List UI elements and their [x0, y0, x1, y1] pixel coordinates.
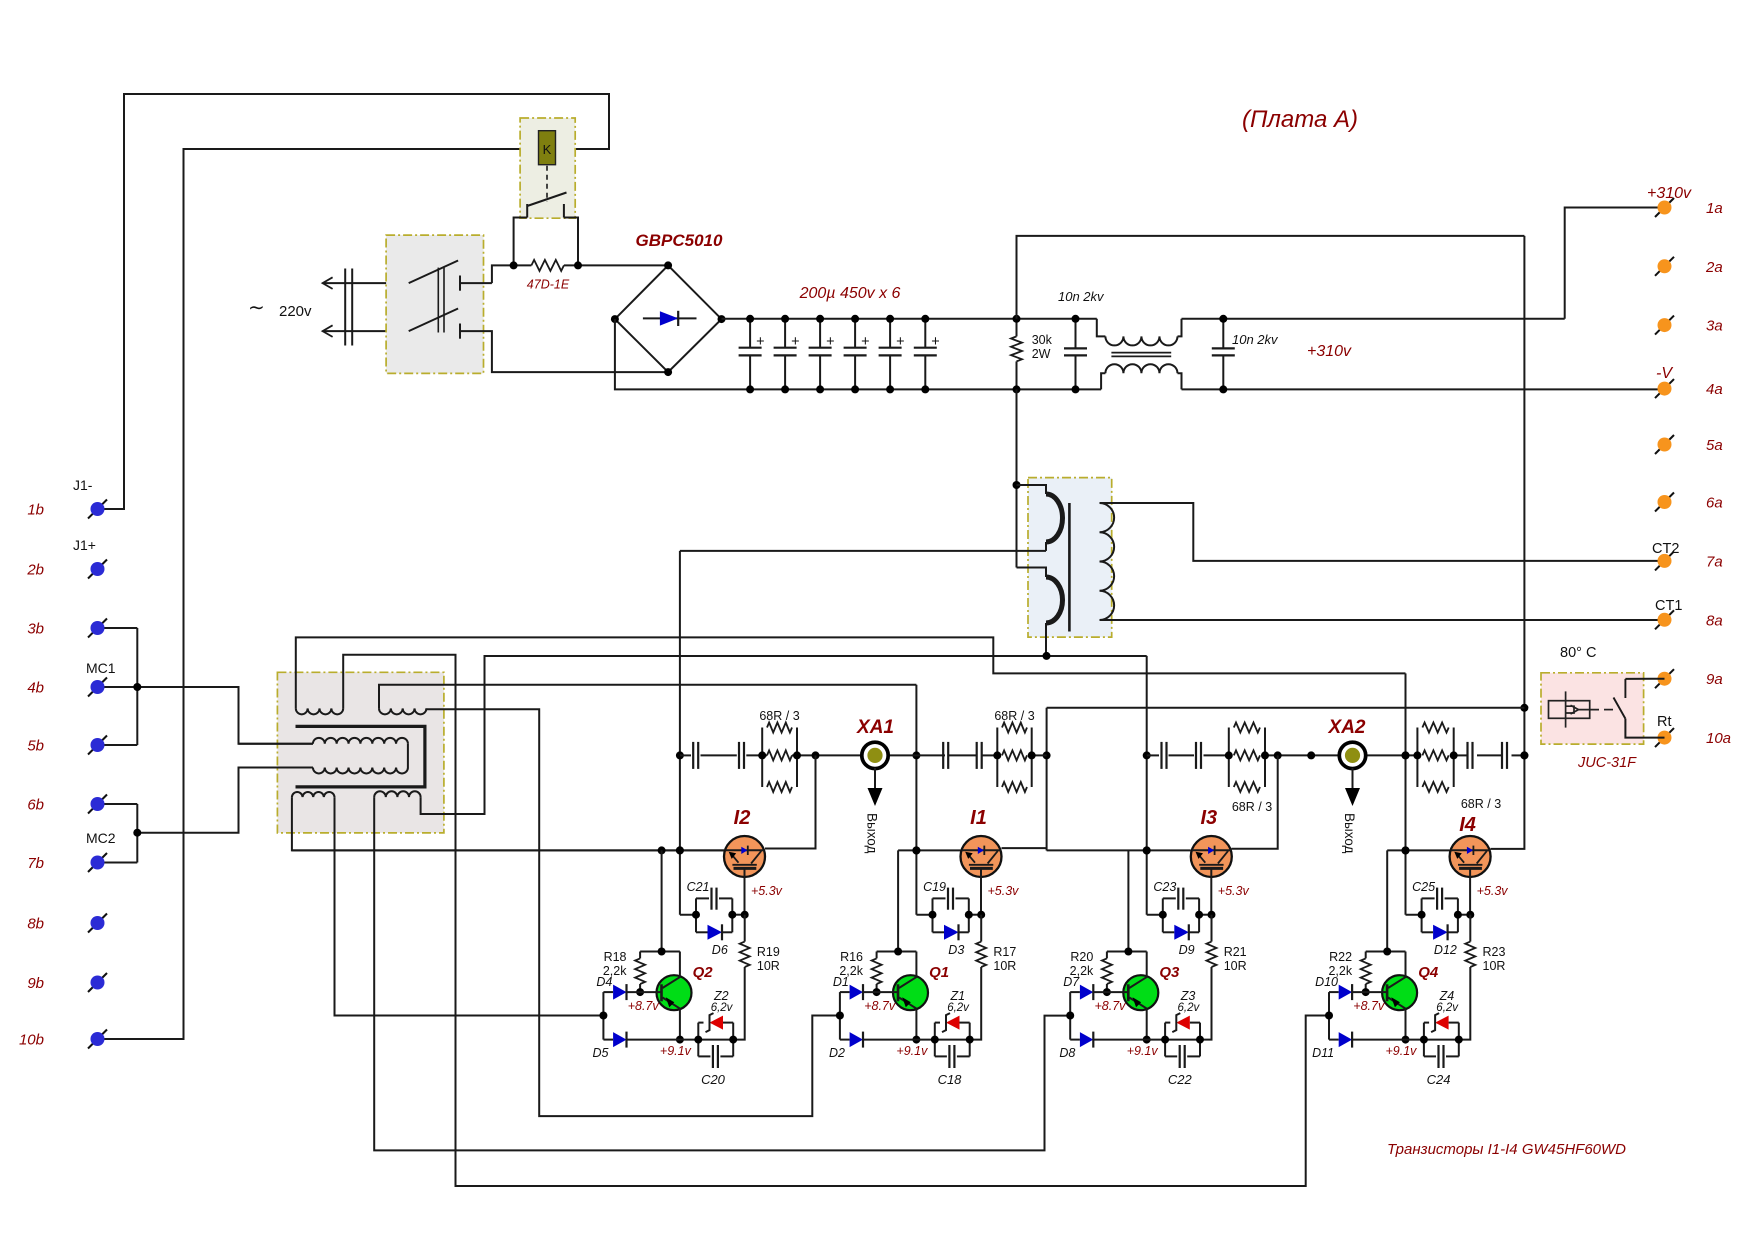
svg-text:+: + — [896, 334, 904, 350]
capacitor C23 — [1162, 898, 1164, 932]
svg-text:10R: 10R — [993, 959, 1016, 973]
capacitor bank C2 200u450v — [784, 319, 786, 348]
wire XA2 to I4 chain — [1365, 754, 1417, 756]
wire vertical 1524 to I4 collector — [1491, 236, 1525, 849]
gate transformer core C — [296, 726, 425, 787]
svg-text:+310v: +310v — [1647, 185, 1692, 202]
wire I2 collector riser — [765, 755, 816, 848]
diode D11 — [1329, 1039, 1339, 1041]
wire Q2 emitter — [679, 1009, 681, 1040]
AC switch dashed box — [386, 235, 483, 373]
choke core — [1111, 352, 1171, 354]
svg-text:+: + — [931, 334, 939, 350]
pin 6a — [1655, 493, 1674, 512]
wire diode rail D10/D11 — [1328, 992, 1330, 1040]
wire top-right winding right lead to I1 diode rail — [426, 708, 840, 1116]
wire Q4 collector — [1405, 952, 1407, 977]
svg-text:+8.7v: +8.7v — [864, 999, 896, 1013]
resistor network 68R/3 I4 — [1416, 728, 1418, 788]
svg-text:C22: C22 — [1168, 1072, 1193, 1087]
wire MC2 pins 6b-7b — [104, 804, 137, 863]
gate transformer primary interconnect — [407, 744, 409, 768]
svg-text:MC1: MC1 — [86, 660, 116, 676]
wire resistor to bridge top — [564, 264, 668, 266]
wire primary center tap to I2 riser — [680, 550, 1046, 552]
capacitor C18 — [935, 1055, 947, 1057]
wire I2 emitter — [680, 914, 696, 916]
svg-text:5a: 5a — [1706, 437, 1723, 454]
svg-text:8b: 8b — [27, 916, 44, 933]
wire Q1 emitter — [915, 1009, 917, 1040]
diode D1 — [840, 991, 850, 993]
svg-text:+5.3v: +5.3v — [751, 884, 783, 898]
capacitor I1 chain B — [976, 742, 978, 769]
svg-text:D3: D3 — [948, 943, 964, 957]
svg-text:K: K — [543, 142, 552, 157]
svg-text:6,2v: 6,2v — [1178, 1002, 1201, 1014]
svg-text:1b: 1b — [27, 502, 44, 519]
wire Q4 collector link — [1386, 850, 1388, 951]
svg-text:I4: I4 — [1459, 814, 1476, 836]
wire gate line I3 — [1047, 849, 1191, 851]
svg-text:80° C: 80° C — [1560, 645, 1596, 661]
svg-text:C20: C20 — [701, 1072, 726, 1087]
pin 4b — [88, 678, 107, 697]
svg-text:+310v: +310v — [1307, 343, 1352, 360]
capacitor I2 chain A — [692, 742, 694, 769]
wire MC2 to primary — [137, 768, 313, 833]
svg-text:D1: D1 — [833, 975, 849, 989]
capacitor I1 chain A — [942, 742, 944, 769]
svg-text:2b: 2b — [26, 562, 44, 579]
svg-text:+: + — [861, 334, 869, 350]
svg-text:6,2v: 6,2v — [711, 1002, 734, 1014]
gate transformer primary lower row — [313, 768, 408, 774]
diode D6 — [696, 931, 708, 933]
pin 2b — [88, 560, 107, 579]
wire Q4 emitter — [1405, 1009, 1407, 1040]
wire gate line I1 — [898, 849, 960, 851]
svg-text:D2: D2 — [829, 1046, 845, 1060]
switch pole lower — [409, 309, 458, 332]
resistor R22 2.2k — [1365, 952, 1367, 959]
transistor Q4 — [1382, 975, 1417, 1010]
svg-text:C23: C23 — [1153, 880, 1176, 894]
resistor R18 2.2k — [639, 952, 641, 959]
svg-text:Z4: Z4 — [1439, 989, 1455, 1003]
wire top rail right segment — [1182, 318, 1565, 320]
svg-text:4b: 4b — [27, 680, 44, 697]
svg-text:MC2: MC2 — [86, 830, 116, 846]
IGBT I2 — [724, 836, 765, 877]
resistor network 68R/3 I1 — [996, 728, 998, 788]
pin 9a — [1655, 669, 1674, 688]
svg-text:Выход: Выход — [1342, 813, 1357, 854]
svg-text:10b: 10b — [19, 1032, 44, 1049]
gate transformer winding bottom-left — [292, 792, 335, 797]
svg-text:R18: R18 — [604, 950, 627, 964]
wire relay contact parallel — [514, 218, 528, 266]
wire XA1 to I1 chain — [888, 754, 945, 756]
AC plug arrows 220v — [323, 277, 333, 289]
zener Z4 6.2v — [1423, 1023, 1425, 1057]
wire AC lower pole to bridge — [460, 331, 668, 372]
svg-text:Rt: Rt — [1657, 714, 1672, 730]
relay K dashed enclosure — [520, 118, 575, 218]
capacitor bank C4 200u450v — [854, 319, 856, 348]
relay linkage dashed — [546, 166, 548, 202]
common-mode choke lower winding — [1101, 373, 1105, 389]
svg-text:+9.1v: +9.1v — [896, 1044, 928, 1058]
svg-text:I2: I2 — [734, 807, 751, 829]
wire Q1 collector link — [897, 850, 899, 951]
wire MC1 pins 3b-5b — [104, 628, 137, 745]
svg-text:10a: 10a — [1706, 730, 1731, 747]
svg-text:+5.3v: +5.3v — [1218, 884, 1250, 898]
transistor Q1 — [893, 975, 928, 1010]
transistor Q2 — [657, 975, 692, 1010]
svg-text:C25: C25 — [1412, 880, 1435, 894]
IGBT I4 — [1450, 836, 1491, 877]
svg-text:D7: D7 — [1063, 975, 1080, 989]
capacitor I2 chain B — [738, 742, 740, 769]
svg-text:68R / 3: 68R / 3 — [994, 709, 1034, 723]
svg-text:D4: D4 — [596, 975, 612, 989]
svg-text:10n 2kv: 10n 2kv — [1058, 289, 1105, 304]
svg-text:D12: D12 — [1434, 943, 1457, 957]
svg-text:10R: 10R — [1483, 959, 1506, 973]
svg-text:Выход: Выход — [865, 813, 880, 854]
wire I2 chain to XA1 — [797, 754, 862, 756]
gate transformer winding top-right — [379, 708, 426, 714]
svg-text:6b: 6b — [27, 797, 44, 814]
svg-text:D8: D8 — [1059, 1046, 1075, 1060]
svg-text:R20: R20 — [1070, 950, 1093, 964]
svg-text:3a: 3a — [1706, 318, 1723, 335]
wire I4 emitter — [1406, 914, 1422, 916]
thermal switch contact — [1614, 698, 1626, 719]
resistor R21 10R — [1211, 915, 1213, 942]
capacitor I3 chain A — [1160, 742, 1162, 769]
wire I2 chain — [680, 754, 691, 756]
wire gate line I4 — [1387, 849, 1449, 851]
relay coil K — [539, 131, 556, 165]
common-mode choke upper winding — [1097, 319, 1106, 337]
pin 9b — [88, 973, 107, 992]
wire I1-I4 collector tie y708 — [1047, 707, 1525, 709]
capacitor I4 chain B — [1501, 742, 1503, 769]
svg-text:68R / 3: 68R / 3 — [759, 709, 799, 723]
resistor R16 2.2k — [876, 952, 878, 959]
wire bottom-right winding right lead to I3 riser — [421, 656, 1147, 814]
svg-text:7a: 7a — [1706, 553, 1723, 570]
resistor R19 10R — [744, 915, 746, 942]
capacitor 10n 2kv second — [1222, 319, 1224, 349]
pin 8a — [1655, 610, 1674, 629]
capacitor bank C5 200u450v — [889, 319, 891, 348]
transistor Q3 — [1123, 975, 1158, 1010]
pin 8b — [88, 914, 107, 933]
svg-text:+5.3v: +5.3v — [1477, 884, 1509, 898]
wire secondary bottom to CT1 pin 8a — [1100, 619, 1665, 621]
pin 1a — [1655, 198, 1674, 217]
svg-text:10R: 10R — [1224, 959, 1247, 973]
svg-text:+8.7v: +8.7v — [628, 999, 660, 1013]
zener Z3 6.2v — [1164, 1023, 1166, 1057]
svg-text:J1-: J1- — [73, 477, 93, 493]
pin 10a — [1655, 728, 1674, 747]
wire I1 riser — [915, 685, 917, 915]
zener Z1 6.2v — [934, 1023, 936, 1057]
svg-text:10n 2kv: 10n 2kv — [1232, 332, 1279, 347]
capacitor C22 — [1165, 1055, 1177, 1057]
wire bottom-left winding left lead I2 gate — [292, 797, 724, 850]
resistor R20 2.2k — [1106, 952, 1108, 959]
gate transformer dashed box — [277, 672, 444, 833]
svg-text:7b: 7b — [27, 855, 44, 872]
svg-text:R21: R21 — [1224, 945, 1247, 959]
resistor R17 10R — [980, 915, 982, 942]
svg-text:-V: -V — [1656, 365, 1673, 382]
wire to pin 9a — [1625, 678, 1664, 680]
switch linkage — [437, 268, 439, 333]
diode D3 — [933, 931, 945, 933]
svg-text:68R / 3: 68R / 3 — [1461, 797, 1501, 811]
capacitor C25 — [1421, 898, 1423, 932]
svg-text:C21: C21 — [687, 880, 710, 894]
main transformer core — [1068, 503, 1071, 632]
thermal switch symbol — [1549, 701, 1590, 719]
svg-text:D11: D11 — [1312, 1046, 1334, 1060]
diode D5 — [603, 1039, 613, 1041]
gate transformer primary upper row — [239, 743, 313, 745]
pin 1b — [88, 500, 107, 519]
diode D10 — [1329, 991, 1339, 993]
svg-text:I3: I3 — [1200, 807, 1217, 829]
pin 3a — [1655, 316, 1674, 335]
wire bottom-right winding left lead to I3 diode rail — [374, 797, 1070, 1150]
diode D9 — [1163, 931, 1175, 933]
svg-text:+9.1v: +9.1v — [660, 1044, 692, 1058]
svg-text:D5: D5 — [593, 1046, 609, 1060]
pin 10b — [88, 1030, 107, 1049]
wire I3 collector riser — [1232, 755, 1278, 848]
resistor network 68R/3 I2 — [761, 728, 763, 788]
pin 5a — [1655, 435, 1674, 454]
svg-text:3b: 3b — [27, 621, 44, 638]
wire AC upper pole to resistor line — [492, 265, 532, 283]
diode D7 — [1070, 991, 1080, 993]
wire gate line I2 — [292, 849, 724, 851]
svg-text:2W: 2W — [1032, 347, 1051, 361]
svg-text:6,2v: 6,2v — [1436, 1002, 1459, 1014]
capacitor I4 chain A — [1466, 742, 1468, 769]
svg-text:XA1: XA1 — [856, 717, 894, 738]
svg-text:Z1: Z1 — [950, 989, 966, 1003]
wire -rail to transformer node — [1016, 389, 1018, 567]
svg-text:R17: R17 — [993, 945, 1016, 959]
wire relay-coil return to pin 10b — [104, 149, 539, 1039]
svg-text:+8.7v: +8.7v — [1095, 999, 1127, 1013]
svg-text:R23: R23 — [1483, 945, 1506, 959]
wire I2 riser — [679, 551, 681, 915]
wire diode rail D4/D5 — [602, 992, 604, 1040]
IGBT I1 — [961, 836, 1002, 877]
wire top-right winding left lead to I1 riser — [379, 685, 916, 709]
pin 7a — [1655, 551, 1674, 570]
svg-text:9b: 9b — [27, 975, 44, 992]
resistor 30k 2W — [1016, 319, 1018, 337]
wire I4 riser — [1405, 673, 1407, 914]
AC plug bars — [344, 269, 346, 346]
svg-text:+5.3v: +5.3v — [988, 884, 1020, 898]
IGBT I3 — [1191, 836, 1232, 877]
capacitor C19 — [932, 898, 934, 932]
svg-text:220v: 220v — [279, 303, 312, 320]
capacitor bank C6 200u450v — [924, 319, 926, 348]
svg-text:6,2v: 6,2v — [947, 1002, 970, 1014]
svg-text:CT1: CT1 — [1655, 598, 1682, 614]
capacitor 10n 2kv first — [1075, 319, 1077, 349]
wire I3 riser — [1146, 656, 1148, 915]
capacitor bank C1 200u450v — [749, 319, 751, 348]
svg-text:R19: R19 — [757, 945, 780, 959]
svg-text:4a: 4a — [1706, 381, 1723, 398]
svg-text:∼: ∼ — [248, 297, 265, 319]
wire +310v riser to pin 1a — [1565, 208, 1665, 319]
svg-text:D6: D6 — [712, 943, 728, 957]
relay contact switch — [526, 204, 528, 218]
svg-text:Z3: Z3 — [1180, 989, 1196, 1003]
svg-text:200µ 450v x 6: 200µ 450v x 6 — [799, 285, 901, 302]
wire Q2 collector — [679, 952, 681, 977]
diode D2 — [840, 1039, 850, 1041]
svg-text:JUC-31F: JUC-31F — [1577, 755, 1637, 771]
gate transformer winding bottom-right — [374, 791, 420, 797]
diode D8 — [1070, 1039, 1080, 1041]
svg-text:C24: C24 — [1427, 1072, 1451, 1087]
svg-text:C19: C19 — [923, 880, 946, 894]
svg-text:I1: I1 — [970, 807, 987, 829]
main transformer dashed box — [1028, 478, 1112, 637]
svg-text:9a: 9a — [1706, 671, 1723, 688]
wire +DC top rail — [722, 318, 1097, 320]
capacitor bank C3 200u450v — [819, 319, 821, 348]
svg-text:XA2: XA2 — [1328, 717, 1366, 738]
svg-text:D9: D9 — [1179, 943, 1195, 957]
wire MC1 to primary — [104, 687, 313, 744]
svg-text:J1+: J1+ — [73, 537, 96, 553]
wire I3 chain — [1147, 754, 1159, 756]
svg-text:30k: 30k — [1032, 333, 1053, 347]
capacitor C20 — [698, 1055, 710, 1057]
arrow XA1 output — [874, 768, 876, 788]
svg-text:Z2: Z2 — [713, 989, 729, 1003]
wire top-left winding right lead to I4 diode rail — [343, 655, 1329, 1186]
svg-text:R22: R22 — [1329, 950, 1352, 964]
svg-text:Q1: Q1 — [929, 964, 949, 981]
resistor R23 10R — [1469, 915, 1471, 942]
switch pole upper — [409, 261, 458, 284]
pin 5b — [88, 736, 107, 755]
svg-text:8a: 8a — [1706, 612, 1723, 629]
wire Q3 emitter — [1146, 1009, 1148, 1040]
wire bottom-left winding right lead to I2 diode rail — [335, 797, 604, 1015]
wire Q3 collector link — [1127, 850, 1129, 951]
resistor network 68R/3 I3 — [1228, 728, 1230, 788]
pin 3b — [88, 619, 107, 638]
svg-text:Транзисторы I1-I4 GW45HF60WD: Транзисторы I1-I4 GW45HF60WD — [1387, 1141, 1626, 1158]
wire diode rail D7/D8 — [1069, 992, 1071, 1040]
wire I1 emitter — [916, 914, 932, 916]
svg-text:Q2: Q2 — [693, 964, 714, 981]
svg-text:68R / 3: 68R / 3 — [1232, 800, 1272, 814]
wire secondary top to CT2 pin 7a — [1100, 503, 1665, 561]
pin 2a — [1655, 257, 1674, 276]
svg-text:1a: 1a — [1706, 200, 1723, 217]
wire relay-coil top loop from pin 1b — [104, 94, 609, 509]
main transformer primary lower half — [1017, 568, 1047, 578]
svg-text:10R: 10R — [757, 959, 780, 973]
main transformer secondary — [1100, 503, 1115, 620]
wire top-left winding left lead to I4 chain — [296, 637, 1406, 708]
wire Q2 collector link — [661, 850, 663, 951]
main transformer primary upper half — [1017, 485, 1047, 494]
resistor 47D-1E — [531, 260, 564, 271]
capacitor C24 — [1424, 1055, 1436, 1057]
connector XA2 — [1339, 742, 1365, 768]
svg-text:Q3: Q3 — [1159, 964, 1180, 981]
svg-text:47D-1E: 47D-1E — [527, 278, 570, 292]
wire bottom rail right — [1182, 388, 1665, 390]
svg-text:5b: 5b — [27, 738, 44, 755]
wire Q1 collector — [915, 952, 917, 977]
capacitor C21 — [695, 898, 697, 932]
svg-text:+: + — [791, 334, 799, 350]
pin 6b — [88, 795, 107, 814]
svg-text:GBPC5010: GBPC5010 — [636, 231, 723, 250]
diode D4 — [603, 991, 613, 993]
svg-text:C18: C18 — [938, 1072, 963, 1087]
wire I3 emitter — [1147, 914, 1163, 916]
capacitor I3 chain B — [1195, 742, 1197, 769]
thermal switch JUC-31F box — [1541, 673, 1644, 744]
wire Q3 collector — [1146, 952, 1148, 977]
gate transformer winding top-left — [296, 708, 343, 714]
zener Z2 6.2v — [697, 1023, 699, 1057]
pin 4a — [1655, 379, 1674, 398]
svg-text:+: + — [826, 334, 834, 350]
svg-text:+: + — [756, 334, 764, 350]
svg-text:6a: 6a — [1706, 495, 1723, 512]
svg-text:+9.1v: +9.1v — [1386, 1044, 1418, 1058]
wire I1 collector riser — [1046, 708, 1048, 851]
svg-text:D10: D10 — [1315, 975, 1338, 989]
bridge rectifier GBPC5010 — [615, 265, 722, 372]
svg-text:2a: 2a — [1705, 259, 1723, 276]
wire diode rail D1/D2 — [839, 992, 841, 1040]
arrow XA2 output — [1352, 768, 1354, 788]
wire top-rail to relay line y236 — [1017, 236, 1525, 319]
svg-text:R16: R16 — [840, 950, 863, 964]
svg-text:+9.1v: +9.1v — [1127, 1044, 1159, 1058]
wire to pin 10a — [1625, 719, 1664, 738]
svg-text:+8.7v: +8.7v — [1353, 999, 1385, 1013]
connector XA1 — [862, 742, 888, 768]
wire -DC bottom rail — [615, 319, 1101, 389]
svg-text:(Плата А): (Плата А) — [1242, 106, 1358, 133]
svg-text:Q4: Q4 — [1418, 964, 1439, 981]
